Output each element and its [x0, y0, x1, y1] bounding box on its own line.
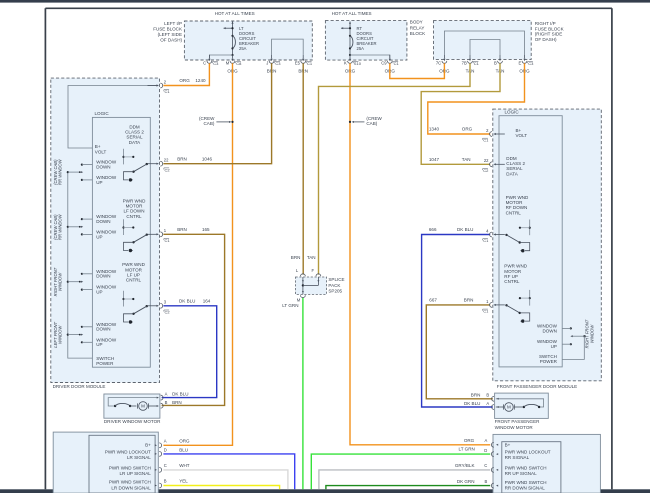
wire DK BLU 164 driver DDM pin 3 to window motor pin A: [162, 306, 217, 398]
svg-text:C1: C1: [165, 238, 171, 243]
output stage RF down control: [505, 220, 531, 253]
svg-text:E: E: [519, 61, 522, 66]
motor M symbol (driver): [139, 402, 148, 411]
svg-text:PWR WND SWITCH: PWR WND SWITCH: [109, 465, 151, 470]
RR pin D: [496, 453, 498, 455]
svg-text:UP: UP: [96, 290, 102, 295]
wire BRN pin E5 to splice SP205 pin L: [302, 63, 304, 274]
wire BLU LR lockout signal: [163, 454, 294, 489]
splice pin F: [316, 274, 321, 276]
svg-text:VOLT: VOLT: [95, 149, 107, 154]
splice pin M: [301, 295, 306, 297]
svg-text:B: B: [494, 61, 497, 66]
svg-text:HOT AT ALL TIMES: HOT AT ALL TIMES: [215, 11, 255, 16]
svg-text:22: 22: [484, 158, 489, 163]
LR pin C: [155, 469, 157, 471]
svg-text:WINDOW: WINDOW: [58, 325, 63, 344]
svg-text:J: J: [266, 61, 268, 66]
svg-text:RR DOWN SIGNAL: RR DOWN SIGNAL: [505, 486, 546, 491]
crew cab marker right: [349, 116, 383, 126]
svg-text:K: K: [344, 61, 347, 66]
pin J: [271, 55, 273, 59]
switch power bus line: [68, 172, 93, 358]
svg-text:RR WINDOW: RR WINDOW: [58, 213, 63, 240]
svg-text:B: B: [486, 393, 489, 398]
wire ORG elbow pin C9 to pin 7C: [390, 63, 445, 78]
svg-text:CNTRL: CNTRL: [126, 278, 142, 283]
svg-text:UP: UP: [551, 344, 557, 349]
bus bar pin 7B to pin B: [470, 40, 500, 55]
svg-text:DOWN: DOWN: [542, 328, 556, 333]
pin 7C: [443, 55, 445, 59]
svg-text:FRONT PASSENGER DOOR MODULE: FRONT PASSENGER DOOR MODULE: [497, 384, 577, 389]
window switch group crew cab RR 2: [67, 218, 93, 235]
svg-text:C1: C1: [474, 61, 480, 66]
passenger logic box: [499, 116, 562, 367]
driver motor armature circuit: [108, 398, 157, 411]
window switch group right front: [67, 273, 93, 291]
passenger DDM pin 2: [495, 133, 504, 135]
rotated label RIGHT FRONT WINDOW (passenger): [585, 319, 595, 348]
svg-text:BRN: BRN: [177, 227, 187, 232]
svg-text:C2: C2: [165, 167, 171, 172]
svg-text:WINDOW: WINDOW: [589, 324, 594, 343]
svg-text:FRONT PASSENGER: FRONT PASSENGER: [495, 419, 541, 424]
RR pin C: [496, 469, 498, 471]
svg-text:C: C: [164, 463, 167, 468]
svg-text:OF DASH): OF DASH): [535, 37, 557, 42]
svg-text:LR UP SIGNAL: LR UP SIGNAL: [120, 471, 152, 476]
svg-text:PWR WND SWITCH: PWR WND SWITCH: [505, 465, 547, 470]
passenger DDM pin 1: [495, 304, 504, 306]
svg-text:FUSE BLOCK: FUSE BLOCK: [535, 26, 564, 31]
svg-text:RELAY: RELAY: [410, 25, 425, 30]
bottom window chrome bar: [0, 489, 650, 493]
svg-text:B+: B+: [505, 442, 511, 447]
svg-text:YEL: YEL: [179, 479, 188, 484]
svg-text:B: B: [165, 400, 168, 405]
svg-text:WHT: WHT: [179, 463, 190, 468]
svg-text:M: M: [507, 405, 511, 410]
svg-text:UP: UP: [96, 180, 102, 185]
svg-text:LR SIGNAL: LR SIGNAL: [127, 455, 151, 460]
switch power bus line (passenger): [562, 336, 584, 359]
wire WHT LR up signal: [163, 470, 288, 489]
pin 7B: [469, 55, 471, 59]
svg-text:UP: UP: [96, 234, 102, 239]
svg-text:M: M: [226, 61, 230, 66]
svg-text:DOWN: DOWN: [96, 327, 110, 332]
svg-text:C1: C1: [307, 61, 313, 66]
LR pin A: [155, 444, 157, 446]
passenger motor pin B: [497, 398, 499, 400]
svg-text:FUSE BLOCK: FUSE BLOCK: [153, 27, 182, 32]
pin B: [499, 55, 501, 59]
svg-text:C3: C3: [528, 61, 534, 66]
svg-text:CNTRL: CNTRL: [126, 214, 142, 219]
passenger DDM pin 22: [495, 163, 504, 165]
svg-text:DATA: DATA: [506, 171, 518, 176]
svg-text:D: D: [164, 448, 167, 453]
splice internal junction: [302, 277, 320, 294]
svg-text:LEFT I/P: LEFT I/P: [164, 21, 182, 26]
svg-text:1046: 1046: [202, 156, 213, 161]
passenger motor armature circuit: [496, 399, 544, 412]
svg-text:B: B: [164, 479, 167, 484]
top window chrome bar: [0, 0, 650, 3]
right I/P fuse block box: [434, 21, 532, 60]
svg-text:BRN: BRN: [464, 298, 474, 303]
svg-text:C1: C1: [483, 238, 489, 243]
svg-text:CAB): CAB): [366, 121, 377, 126]
svg-text:A: A: [485, 438, 488, 443]
body relay block box: [325, 21, 407, 61]
svg-text:1240: 1240: [195, 78, 206, 83]
pin E5: [302, 55, 304, 59]
svg-text:CAB): CAB): [204, 121, 215, 126]
svg-text:C1: C1: [483, 138, 489, 143]
window switch group crew cab RR 1: [67, 164, 93, 181]
svg-text:C2: C2: [165, 309, 171, 314]
wire TAN pin 7B to splice SP205 pin F: [319, 63, 471, 274]
wire BRN 667 passenger DDM pin 1 to motor pin B: [426, 305, 493, 399]
wire ORG 1340 pin E to passenger DDM pin 2: [428, 63, 525, 134]
svg-text:RIGHT I/P: RIGHT I/P: [535, 21, 556, 26]
driver window motor box: [104, 394, 160, 418]
svg-text:BRN: BRN: [177, 156, 187, 161]
internal link breaker to pin C9: [350, 55, 390, 59]
svg-text:DK BLU: DK BLU: [179, 299, 195, 304]
wire ORG pin M down to LR switch B+ pin A: [163, 63, 232, 445]
pin C9: [389, 55, 391, 59]
svg-text:TAN: TAN: [462, 157, 471, 162]
svg-text:ORG: ORG: [464, 438, 475, 443]
svg-text:BRN: BRN: [291, 255, 301, 260]
svg-text:DK BLU: DK BLU: [457, 227, 473, 232]
svg-text:A: A: [164, 439, 167, 444]
svg-text:C1: C1: [165, 89, 171, 94]
svg-text:OF DASH): OF DASH): [160, 37, 182, 42]
circuit breaker at x=350.0: [341, 21, 377, 56]
wire DK BLU 666 passenger DDM pin 4 to motor pin A: [422, 235, 493, 408]
circuit breaker at x=232.5: [223, 21, 259, 56]
svg-text:(RIGHT SIDE: (RIGHT SIDE: [535, 32, 562, 37]
svg-text:BRN: BRN: [471, 393, 481, 398]
svg-text:ORG: ORG: [179, 78, 190, 83]
rotated label (CREW CAB) RR WINDOW 1: [53, 158, 63, 185]
svg-text:7C: 7C: [436, 61, 441, 66]
svg-text:DK GRN: DK GRN: [457, 479, 475, 484]
svg-text:7B: 7B: [462, 61, 467, 66]
RR pin A: [496, 444, 498, 446]
pin E: [524, 55, 526, 59]
svg-text:BRN: BRN: [172, 400, 182, 405]
svg-text:PWR WND LOCKOUT: PWR WND LOCKOUT: [505, 449, 551, 454]
DDM logic box: [92, 117, 150, 367]
svg-text:25A: 25A: [239, 46, 247, 51]
output stage LF up control: [122, 291, 147, 324]
svg-text:M: M: [141, 404, 145, 409]
svg-text:M: M: [297, 297, 301, 302]
driver door module box: [51, 78, 160, 382]
svg-text:BODY: BODY: [410, 20, 423, 25]
svg-text:WINDOW MOTOR: WINDOW MOTOR: [495, 425, 534, 430]
wire DK GRN RR down signal: [326, 486, 490, 490]
wire GRY/BLK RR up signal: [319, 470, 490, 489]
output stage LF motor feed: [122, 219, 147, 252]
splice pin L: [301, 274, 306, 276]
driver DDM pin 22: [148, 163, 157, 165]
svg-text:SP205: SP205: [328, 289, 342, 294]
svg-text:A: A: [165, 391, 168, 396]
wire TAN 1047 pin B to passenger DDM pin 22: [421, 63, 500, 164]
svg-text:BLU: BLU: [179, 448, 188, 453]
svg-text:DK BLU: DK BLU: [172, 391, 188, 396]
svg-text:C1: C1: [483, 309, 489, 314]
svg-text:PWR WND SWITCH: PWR WND SWITCH: [109, 480, 151, 485]
wire ORG 1240 pin C to DDM pin 2: [163, 63, 209, 85]
svg-text:UP: UP: [96, 342, 102, 347]
svg-text:CNTRL: CNTRL: [504, 279, 520, 284]
svg-text:B+: B+: [145, 442, 151, 447]
svg-text:LT GRN: LT GRN: [459, 446, 475, 451]
svg-text:C3: C3: [213, 61, 219, 66]
wire LT GRN splice SP205 output down: [302, 297, 304, 489]
svg-text:LOGIC: LOGIC: [505, 110, 520, 115]
svg-text:666: 666: [429, 227, 437, 232]
splice pack SP205 box: [296, 277, 327, 294]
svg-text:PWR WND LOCKOUT: PWR WND LOCKOUT: [105, 449, 151, 454]
pin C: [208, 55, 210, 59]
svg-text:PWR WND SWITCH: PWR WND SWITCH: [505, 480, 547, 485]
svg-text:TAN: TAN: [307, 255, 316, 260]
LR pin D: [155, 453, 157, 455]
svg-text:C2: C2: [483, 168, 489, 173]
right rear switch interface box: [493, 434, 600, 493]
driver motor pin A: [157, 397, 159, 399]
svg-text:BLOCK: BLOCK: [410, 31, 425, 36]
svg-text:HOT AT ALL TIMES: HOT AT ALL TIMES: [332, 11, 372, 16]
wire YEL LR down signal: [163, 486, 279, 490]
left rear switch inner box: [89, 435, 155, 493]
wire ORG pin K down to RR switch B+ pin A: [350, 63, 490, 445]
svg-text:DK BLU: DK BLU: [464, 401, 480, 406]
svg-text:C: C: [203, 61, 206, 66]
svg-text:LT GRN: LT GRN: [282, 303, 298, 308]
svg-text:C1: C1: [394, 61, 400, 66]
svg-text:1047: 1047: [429, 157, 440, 162]
driver DDM pin 3: [148, 305, 157, 307]
pin M: [232, 55, 234, 59]
wire LT GRN RR lockout signal: [311, 454, 490, 489]
svg-text:F: F: [311, 268, 314, 273]
svg-text:WINDOW: WINDOW: [58, 272, 63, 291]
rotated label RIGHT FRONT WINDOW: [53, 267, 63, 296]
wire BRN 1046 pin J to driver DDM pin 22: [163, 63, 271, 163]
svg-text:C3: C3: [275, 61, 281, 66]
svg-text:DRIVER DOOR MODULE: DRIVER DOOR MODULE: [53, 384, 106, 389]
svg-text:25A: 25A: [357, 46, 365, 51]
passenger motor pin A: [497, 406, 499, 408]
driver DDM pin 1: [148, 233, 157, 235]
svg-text:LOGIC: LOGIC: [95, 111, 110, 116]
left I/P fuse block box: [184, 21, 312, 60]
RR pin B: [496, 485, 498, 487]
right rear switch inner box: [502, 442, 561, 493]
svg-text:LR DOWN SIGNAL: LR DOWN SIGNAL: [111, 485, 151, 490]
passenger DDM pin 4: [495, 234, 504, 236]
window switch group right front (passenger): [562, 327, 585, 359]
crew cab marker left: [199, 116, 234, 126]
svg-text:B: B: [485, 479, 488, 484]
svg-text:CNTRL: CNTRL: [506, 210, 522, 215]
svg-text:DATA: DATA: [129, 140, 141, 145]
svg-text:GRY/BLK: GRY/BLK: [455, 463, 475, 468]
svg-text:RR SIGNAL: RR SIGNAL: [505, 455, 530, 460]
driver motor pin B: [157, 405, 159, 407]
svg-text:RR UP SIGNAL: RR UP SIGNAL: [505, 471, 537, 476]
left rear switch interface box: [53, 432, 158, 493]
svg-text:S10: S10: [354, 61, 362, 66]
svg-text:C9: C9: [381, 61, 387, 66]
motor M symbol (passenger): [505, 403, 514, 412]
svg-text:C: C: [484, 463, 487, 468]
internal link breaker to pin C: [209, 55, 232, 59]
svg-text:DOWN: DOWN: [96, 274, 110, 279]
window switch group left front: [67, 326, 93, 344]
svg-text:A: A: [486, 401, 489, 406]
svg-text:POWER: POWER: [96, 361, 114, 366]
front passenger window motor box: [495, 393, 549, 418]
LR pin B: [155, 485, 157, 487]
driver DDM pin 2: [148, 85, 157, 87]
svg-text:D: D: [484, 448, 487, 453]
svg-text:(LEFT SIDE: (LEFT SIDE: [158, 32, 182, 37]
wire BRN 165 driver DDM pin 1 to window motor pin B: [162, 234, 225, 405]
svg-text:1340: 1340: [429, 127, 440, 132]
svg-text:RR WINDOW: RR WINDOW: [58, 158, 63, 185]
rotated label (CREW CAB) RR WINDOW 2: [53, 213, 63, 240]
front passenger door module box: [493, 109, 602, 381]
internal B+ feed line from pin 2: [68, 86, 157, 149]
svg-text:DOWN: DOWN: [96, 165, 110, 170]
svg-text:PACK: PACK: [328, 283, 340, 288]
svg-text:VOLT: VOLT: [516, 133, 528, 138]
svg-text:SPLICE: SPLICE: [328, 277, 344, 282]
svg-text:667: 667: [429, 298, 437, 303]
bus bar pin 7C to pin E: [444, 31, 524, 55]
svg-text:ORG: ORG: [179, 439, 190, 444]
bus bar pin J to pin E5: [272, 39, 304, 55]
svg-text:165: 165: [202, 227, 210, 232]
output stage LF down control: [122, 149, 147, 182]
pin K: [349, 55, 351, 59]
svg-text:164: 164: [203, 299, 211, 304]
rotated label LEFT FRONT WINDOW: [53, 321, 63, 347]
svg-text:22: 22: [164, 158, 169, 163]
output stage RF up control: [505, 290, 531, 323]
svg-text:ORG: ORG: [462, 127, 473, 132]
svg-text:DRIVER WINDOW MOTOR: DRIVER WINDOW MOTOR: [104, 419, 161, 424]
svg-text:C8: C8: [236, 61, 242, 66]
svg-text:E5: E5: [295, 61, 301, 66]
svg-text:DOWN: DOWN: [96, 219, 110, 224]
svg-text:POWER: POWER: [540, 359, 558, 364]
